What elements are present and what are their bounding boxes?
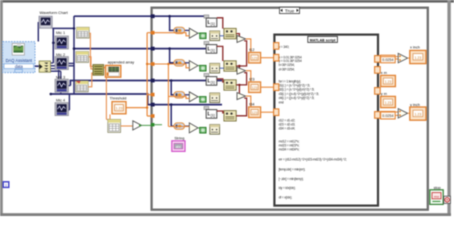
wire: t12 to MATLAB script (orange): [261, 57, 274, 59]
wire: row1 drop to convert oval: [170, 16, 174, 30]
svg-text:MATLAB script: MATLAB script: [310, 38, 336, 42]
wire: oval to comparator row4: [185, 125, 189, 127]
node: orange tunnels on case left border: [151, 31, 155, 35]
case structure border: [152, 8, 428, 210]
svg-text:md34 = mt34*v;: md34 = mt34*v;: [279, 148, 300, 152]
while loop iteration terminal i: [3, 182, 9, 188]
convert from dynamic data 4: [108, 119, 121, 132]
svg-text:[1]: [1]: [211, 114, 215, 118]
svg-text:x m: x m: [381, 71, 387, 75]
svg-text:d4(i,:) = ((x-d).^2+y(i)^2).^.: d4(i,:) = ((x-d).^2+y(i)^2).^.5;: [279, 96, 315, 100]
svg-text:123: 123: [252, 86, 258, 90]
y m indicator: [381, 96, 396, 107]
wire: comparator to boolean box row1: [198, 32, 200, 34]
wire: row1 time to t12 subtract (maroon): [236, 34, 239, 37]
boolean-to-01 node row2: [210, 63, 220, 73]
MATLAB code text: [279, 45, 347, 199]
wire: boolean into case (green): [142, 124, 153, 126]
multiply node (x inch): [398, 53, 407, 62]
wire: navy bus vertical x=76.2: [52, 28, 54, 63]
node: dynamic-data tunnels on case left border: [151, 14, 155, 18]
constant 0.0254 (y): [381, 111, 396, 119]
svg-text:1.23: 1.23: [385, 101, 392, 105]
wire: t12 result (orange): [246, 39, 251, 53]
wire: orange drop from appended array x=106.4 down to convert4: [106, 77, 110, 119]
svg-text:DAQ Assistant: DAQ Assistant: [6, 58, 33, 63]
search 1D array node row4: [204, 106, 217, 118]
svg-text:d34 = d3-d4;: d34 = d3-d4;: [279, 126, 296, 130]
wire: row2 time to t12/t23 (maroon): [236, 41, 246, 66]
svg-text:[~,idx] = min(temp);: [~,idx] = min(temp);: [279, 177, 304, 181]
svg-text:Mic 4: Mic 4: [56, 98, 65, 102]
svg-text:d=36*.0254;: d=36*.0254;: [279, 67, 295, 71]
svg-text:abc: abc: [176, 145, 182, 149]
wire: bool01 to multiply row1 (blue): [220, 35, 224, 37]
script input terminal v: [274, 43, 279, 50]
split signals node: [39, 61, 50, 72]
multiply/index node row4: [224, 111, 236, 121]
convert from dynamic data 1: [77, 27, 90, 38]
boolean convert small box row4: [200, 127, 206, 133]
node: junction dots on navy bus: [73, 27, 76, 30]
svg-text:stop: stop: [434, 186, 441, 190]
wire: t23 result (orange): [246, 71, 251, 82]
stop button terminal: [430, 190, 443, 205]
wire: row3 drop to convert oval: [171, 81, 174, 95]
svg-text:i: i: [6, 183, 7, 188]
String constant: [172, 141, 185, 152]
t12 conversion box: [249, 52, 261, 63]
script output terminal y: [375, 112, 381, 119]
svg-text:df = x(idx);: df = x(idx);: [279, 195, 293, 199]
comparator triangle (outside case): [133, 121, 142, 130]
script input terminal t34: [274, 109, 279, 116]
wire: x to multiply: [380, 57, 398, 59]
subtract triangle t34: [237, 93, 246, 100]
wire: oval to comparator row2: [185, 62, 189, 64]
wire: bool01 to multiply row2 (blue): [220, 67, 224, 69]
wire: DAQ data out to split signals: [35, 65, 39, 67]
DAQ Assistant express VI: [3, 42, 35, 73]
svg-text:appended array: appended array: [108, 60, 135, 64]
svg-text:1.23: 1.23: [414, 56, 421, 60]
wire: stop to condition terminal: [442, 196, 445, 198]
svg-text:t23: t23: [249, 78, 254, 82]
constant 0.0254 (x): [381, 55, 396, 63]
MATLAB script title: [308, 36, 338, 42]
multiply node (y inch): [398, 109, 407, 118]
svg-text:t12: t12: [249, 48, 254, 52]
wire: mic3 stub: [69, 85, 71, 87]
svg-text:1.23: 1.23: [116, 107, 123, 111]
svg-text:0.0254: 0.0254: [382, 114, 393, 118]
wire: search output row3 (maroon): [217, 79, 224, 82]
boolean-to-01 node row3: [210, 93, 220, 103]
boolean convert small box row2: [200, 65, 206, 71]
comparator triangle row1: [189, 28, 198, 38]
svg-text:Mic 1: Mic 1: [56, 31, 65, 35]
wire: row3 dynamic data into case, y=80.5: [70, 81, 222, 86]
search 1D array node row1: [204, 15, 217, 27]
wire: boolean tunnel stub inside case: [155, 124, 163, 126]
svg-text:idy = idx(idx);: idy = idx(idx);: [279, 186, 296, 190]
wire: mic1 to bus: [53, 42, 55, 44]
wire: search output row4 (maroon): [217, 111, 224, 113]
MATLAB script node U1: [274, 35, 378, 206]
svg-text:String: String: [174, 137, 184, 141]
node: boolean tunnel on case left border: [151, 123, 154, 126]
svg-text:err = (d12-md12).^2+(d23-md23): err = (d12-md12).^2+(d23-md23).^2+(d34-m…: [279, 158, 347, 162]
boolean convert small box row1: [200, 33, 206, 39]
convert oval node row4: [174, 123, 185, 129]
wire: comparator to boolean box row2: [198, 65, 200, 67]
wire: row2 dynamic data into case, y=48.6: [74, 48, 206, 50]
wire: splitter outputs fanned to bus lines: [51, 62, 54, 64]
build array / merge node: [93, 65, 104, 76]
Mic 4 chart terminal: [55, 103, 68, 116]
svg-text:123: 123: [252, 56, 258, 60]
svg-text:stop: stop: [434, 194, 440, 198]
wire: search output row2 (maroon): [217, 46, 223, 61]
comparator triangle row4: [189, 123, 198, 133]
svg-text:x inch: x inch: [410, 46, 420, 50]
svg-text:True: True: [285, 8, 295, 13]
script output terminal x m: [375, 67, 381, 74]
wire: row2 drop to convert oval: [170, 49, 174, 63]
svg-text:[1]: [1]: [211, 81, 215, 85]
svg-text:v = 340;: v = 340;: [279, 45, 290, 49]
search 1D array node row3: [204, 73, 217, 85]
svg-text:1.23: 1.23: [385, 80, 392, 84]
wire: oval to comparator row1: [185, 29, 189, 31]
wire: DAQ data to waveform chart (navy vertical): [37, 22, 39, 42]
wire: comparator to boolean box row3: [198, 96, 200, 98]
wire: row3 time to t23/t34 (maroon): [236, 73, 246, 85]
wire: t34 to MATLAB script (orange): [261, 111, 274, 113]
subtract triangle t12: [237, 35, 246, 42]
wire: search output row1 (maroon): [217, 18, 223, 29]
wire: row4 drop to convert oval: [171, 105, 174, 127]
svg-text:data: data: [15, 64, 24, 69]
appended array indicator icon: [105, 65, 120, 77]
loop condition terminal: [444, 196, 451, 203]
svg-text:[1]: [1]: [211, 49, 215, 53]
wire: mic2 to bus: [69, 62, 75, 64]
x inch indicator: [410, 50, 426, 63]
x m indicator: [381, 75, 396, 86]
boolean-to-01 node row4: [210, 125, 220, 135]
wire: navy bus vertical x=72.6: [73, 16, 75, 94]
svg-text:Waveform Chart: Waveform Chart: [40, 10, 69, 15]
wire: row4 time to t34 (maroon): [236, 98, 246, 116]
search 1D array node row2: [204, 41, 217, 53]
Threshold control: [112, 102, 126, 114]
wire: multiply to y inch indicator: [408, 112, 410, 114]
svg-text:[1]: [1]: [211, 22, 215, 26]
subtract triangle t23: [237, 67, 246, 74]
convert from dynamic data 3: [76, 81, 89, 92]
wire: comparator to boolean box row4: [198, 127, 200, 129]
svg-text:123: 123: [252, 111, 258, 115]
svg-text:t34: t34: [249, 103, 254, 107]
wire: multiply to x inch indicator: [408, 57, 410, 59]
waveform chart terminal icon: [39, 16, 52, 28]
svg-text:end: end: [279, 100, 284, 104]
boolean-to-01 node row1: [210, 31, 220, 41]
wire: merge to appended array indicator (orange): [104, 67, 106, 69]
script output terminal x: [375, 56, 381, 63]
convert oval node row1: [174, 27, 185, 33]
svg-text:Threshold: Threshold: [110, 97, 127, 101]
svg-text:[temp,idx] = min(err);: [temp,idx] = min(err);: [279, 168, 306, 172]
case selector label True: [280, 7, 300, 13]
Mic 1 chart terminal: [55, 36, 68, 49]
multiply/index node row1: [224, 28, 236, 38]
wire: threshold orange distribution inside case: [155, 33, 190, 36]
svg-text:y m: y m: [381, 92, 387, 96]
svg-text:0.0254: 0.0254: [382, 58, 393, 62]
wire: convert4 to comparator (orange): [121, 125, 133, 127]
convert oval node row2: [174, 60, 185, 66]
script input terminal t23: [274, 84, 279, 91]
script output terminal y m: [375, 88, 381, 95]
script input terminal t12: [274, 54, 279, 61]
wire: oval to comparator row3: [185, 94, 189, 96]
wire: threshold orange feeder: [126, 33, 152, 116]
wire: chart to bus, y=27.5: [52, 27, 74, 29]
wire: row1 dynamic data into case, y=16: [74, 15, 207, 17]
comparator triangle row3: [189, 92, 198, 102]
wire: converts to merge box (orange): [89, 33, 93, 66]
wire: t34 result (orange): [246, 96, 251, 107]
wire: y to multiply: [380, 112, 398, 115]
svg-text:y inch: y inch: [410, 103, 420, 107]
wire: mic4 riser: [68, 94, 71, 110]
multiply/index node row3: [224, 80, 236, 90]
wire: t23 to MATLAB script (orange): [261, 86, 274, 88]
comparator triangle row2: [189, 61, 198, 71]
boolean convert small box row3: [200, 97, 206, 103]
t23 conversion box: [249, 82, 261, 93]
wire: row4 dynamic data y=94 then into case at y=104.6: [51, 94, 222, 105]
Mic 2 chart terminal: [55, 57, 68, 70]
convert from dynamic data 2: [76, 52, 89, 63]
y inch indicator: [410, 107, 426, 120]
multiply/index node row2: [224, 61, 236, 71]
svg-text:1.23: 1.23: [414, 112, 421, 116]
Mic 3 chart terminal: [55, 79, 68, 92]
t34 conversion box: [249, 107, 261, 118]
wire: x m short: [379, 79, 381, 81]
convert oval node row3: [174, 92, 185, 98]
